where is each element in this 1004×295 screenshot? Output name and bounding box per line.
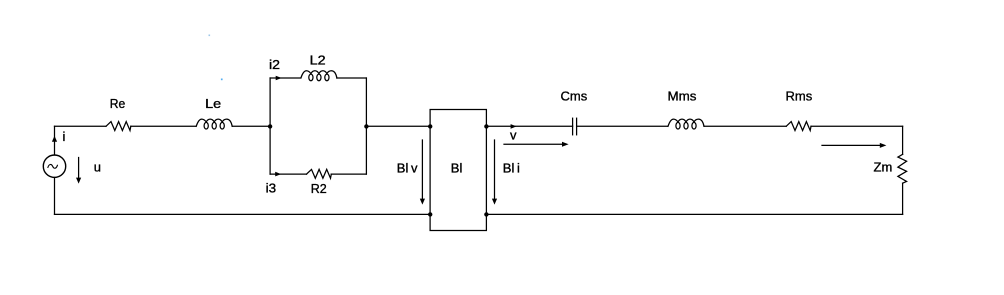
svg-text:i: i xyxy=(63,129,66,144)
wire: Re to Le xyxy=(131,125,196,127)
AC source V1 circle xyxy=(43,155,65,177)
arrowhead velocity (right) xyxy=(880,143,887,148)
junction dot box top-left xyxy=(428,124,432,128)
arrow Bl v line xyxy=(421,140,423,199)
svg-text:L2: L2 xyxy=(310,53,326,68)
arrowhead v (right) xyxy=(562,142,569,147)
wire: bottom branch right segment xyxy=(331,173,366,175)
arrow v line xyxy=(504,143,563,145)
svg-text:Bl: Bl xyxy=(451,161,463,176)
svg-text:Rms: Rms xyxy=(786,89,813,104)
svg-text:Bl v: Bl v xyxy=(397,160,418,175)
svg-text:R2: R2 xyxy=(311,181,327,196)
resistor Zm (vertical) xyxy=(898,154,907,183)
svg-text:Cms: Cms xyxy=(561,89,588,104)
svg-text:i3: i3 xyxy=(266,180,277,195)
wire: Rms to right rail xyxy=(811,125,903,127)
arrowhead u (down) xyxy=(76,178,81,184)
wire: bottom branch left segment xyxy=(270,173,306,175)
wire: right rail below Zm xyxy=(902,183,904,214)
wire: bottom rail left xyxy=(55,213,431,215)
wire: right branch vertical up xyxy=(365,78,367,126)
arrow u line xyxy=(78,158,80,179)
svg-text:Le: Le xyxy=(205,96,221,111)
wire: node B to Bl box xyxy=(366,125,430,127)
wire: left branch vertical up xyxy=(269,78,271,126)
wire: top branch left segment xyxy=(270,77,301,79)
svg-text:Re: Re xyxy=(110,96,126,111)
arrowhead Bl i (down) xyxy=(492,199,497,205)
wire: top branch right segment xyxy=(337,77,367,79)
arrowhead i3 (right) xyxy=(275,172,281,177)
stray blue pixel artifact 1 xyxy=(209,35,211,37)
arrow Bl i line xyxy=(494,140,496,199)
wire: left branch vertical down xyxy=(269,126,271,174)
inductor Mms xyxy=(668,119,704,126)
arrowhead on wire after box (right) xyxy=(511,124,517,129)
svg-text:i2: i2 xyxy=(269,57,280,72)
resistor Re xyxy=(106,122,131,131)
Bl box xyxy=(430,110,486,231)
wire: Le to node A xyxy=(232,125,270,127)
svg-text:v: v xyxy=(510,128,517,143)
wire: bottom rail right xyxy=(486,213,902,215)
svg-text:u: u xyxy=(94,160,101,175)
wire: left rail below source xyxy=(54,177,56,214)
capacitor Cms plates xyxy=(572,118,574,135)
arrowhead i (up) xyxy=(52,136,57,142)
AC source sine symbol xyxy=(48,164,58,168)
node A junction dot xyxy=(268,124,272,128)
wire: capacitor to Mms xyxy=(577,125,668,127)
svg-text:Bl i: Bl i xyxy=(503,160,520,175)
inductor L2 xyxy=(301,71,337,78)
wire: right rail above Zm xyxy=(902,126,904,154)
wire: Mms to Rms xyxy=(704,125,786,127)
arrowhead i2 (right) xyxy=(276,76,282,81)
svg-text:Zm: Zm xyxy=(874,159,893,174)
resistor R2 xyxy=(307,169,332,178)
arrowhead Bl v (down) xyxy=(420,199,425,205)
wire: top from source corner to Re xyxy=(55,125,107,127)
inductor Le xyxy=(196,119,232,126)
junction dot box bottom-left xyxy=(428,212,432,216)
wire: right branch vertical down xyxy=(365,126,367,174)
wire: left rail above source xyxy=(54,126,56,155)
junction dot box bottom-right xyxy=(484,212,488,216)
arrow velocity line (right) xyxy=(822,144,880,146)
svg-text:Mms: Mms xyxy=(668,89,698,104)
stray blue pixel artifact 2 xyxy=(221,79,223,81)
junction dot box top-right xyxy=(484,124,488,128)
wire: Bl box right to capacitor xyxy=(486,125,572,127)
resistor Rms xyxy=(786,122,811,131)
node B junction dot xyxy=(364,124,368,128)
